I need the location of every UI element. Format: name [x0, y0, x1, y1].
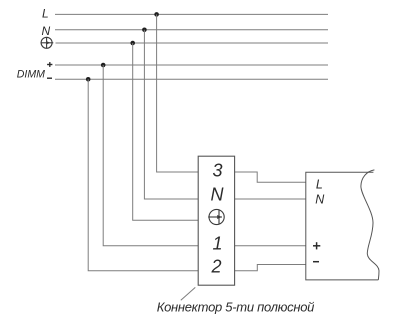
svg-text:2: 2: [211, 257, 222, 277]
svg-text:3: 3: [213, 160, 223, 180]
svg-text:Коннектор 5-ти полюсной: Коннектор 5-ти полюсной: [157, 299, 315, 314]
svg-text:L: L: [316, 177, 323, 191]
svg-text:DIMM: DIMM: [17, 68, 46, 80]
svg-text:N: N: [211, 184, 225, 204]
svg-text:1: 1: [213, 234, 223, 254]
svg-text:L: L: [42, 7, 49, 21]
svg-text:N: N: [42, 24, 51, 38]
svg-text:N: N: [315, 193, 325, 207]
